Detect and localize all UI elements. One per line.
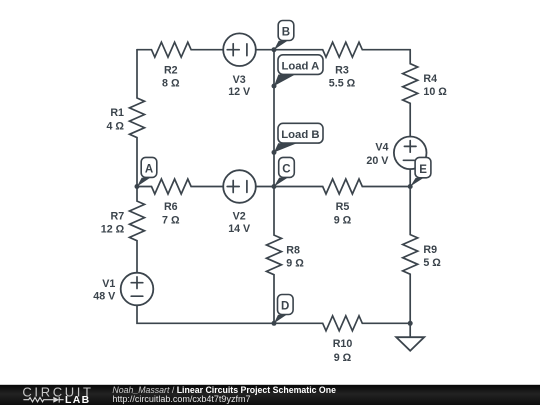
node dot A bbox=[135, 184, 140, 189]
wire V3 right lead to node B bbox=[256, 49, 274, 51]
wire V4 bottom lead to node E bbox=[409, 169, 411, 186]
voltage source V1 (48 V) bbox=[121, 273, 154, 306]
svg-text:V1: V1 bbox=[102, 278, 115, 290]
node dot Load A tap bbox=[272, 84, 277, 89]
svg-text:12 V: 12 V bbox=[228, 86, 251, 98]
svg-text:V3: V3 bbox=[233, 74, 246, 86]
svg-text:D: D bbox=[281, 301, 289, 313]
wedge pointer D bbox=[274, 315, 287, 324]
svg-text:R10: R10 bbox=[333, 338, 353, 350]
wedge pointer E bbox=[410, 178, 423, 187]
voltage source V3 (12 V) bbox=[223, 33, 256, 66]
svg-text:V2: V2 bbox=[233, 211, 246, 223]
node dot E bbox=[408, 184, 413, 189]
wire ground stem bbox=[409, 323, 411, 337]
wire V2 right lead to node C bbox=[256, 186, 274, 188]
wedge pointer B bbox=[274, 41, 288, 50]
svg-text:Load B: Load B bbox=[281, 129, 319, 141]
node dot B bbox=[272, 47, 277, 52]
node label box D bbox=[278, 295, 294, 315]
node dot ground junction bbox=[408, 321, 413, 326]
svg-text:A: A bbox=[145, 164, 153, 176]
node dot C bbox=[272, 184, 277, 189]
node label box A bbox=[141, 157, 157, 177]
CircuitLab logo resistor-diode glyph bbox=[23, 397, 63, 403]
svg-text:14 V: 14 V bbox=[228, 223, 251, 235]
svg-text:http://circuitlab.com/cxb4t7t9: http://circuitlab.com/cxb4t7t9yzfm7 bbox=[112, 394, 250, 404]
svg-text:R8: R8 bbox=[286, 245, 300, 257]
ground symbol bbox=[396, 337, 424, 351]
voltage source V4 (20 V) bbox=[394, 137, 427, 170]
svg-text:4 Ω: 4 Ω bbox=[107, 120, 125, 132]
wedge pointer Load B bbox=[274, 143, 297, 152]
svg-text:B: B bbox=[282, 27, 290, 39]
node label box C bbox=[279, 157, 295, 177]
resistor R8 bbox=[267, 187, 282, 324]
node label box B bbox=[278, 21, 294, 41]
svg-text:5.5 Ω: 5.5 Ω bbox=[329, 78, 356, 90]
resistor R9 bbox=[403, 187, 418, 324]
svg-text:R4: R4 bbox=[423, 73, 437, 85]
svg-text:LAB: LAB bbox=[65, 395, 90, 405]
wire V1 bottom to bottom-left corner to node D bbox=[137, 305, 274, 323]
svg-text:R6: R6 bbox=[164, 201, 178, 213]
svg-text:R9: R9 bbox=[423, 244, 437, 256]
node dot D bbox=[272, 321, 277, 326]
svg-text:7 Ω: 7 Ω bbox=[162, 214, 180, 226]
svg-text:10 Ω: 10 Ω bbox=[423, 86, 447, 98]
svg-text:R2: R2 bbox=[164, 64, 178, 76]
svg-text:8 Ω: 8 Ω bbox=[162, 78, 180, 90]
flag Load A box bbox=[278, 55, 323, 75]
resistor R10 bbox=[274, 316, 410, 331]
svg-text:20 V: 20 V bbox=[366, 155, 389, 167]
resistor R7 bbox=[130, 187, 145, 273]
resistor R4 bbox=[403, 50, 418, 137]
flag Load B box bbox=[278, 123, 323, 143]
svg-text:9 Ω: 9 Ω bbox=[334, 352, 352, 364]
svg-text:48 V: 48 V bbox=[93, 291, 116, 303]
wedge pointer A bbox=[137, 178, 150, 187]
svg-text:R3: R3 bbox=[335, 64, 349, 76]
svg-text:5 Ω: 5 Ω bbox=[423, 257, 441, 269]
svg-text:12 Ω: 12 Ω bbox=[101, 224, 125, 236]
svg-text:R5: R5 bbox=[336, 201, 350, 213]
wedge pointer Load A bbox=[274, 75, 295, 87]
resistor R6 bbox=[137, 179, 223, 194]
resistor R3 bbox=[274, 42, 410, 57]
svg-text:Load A: Load A bbox=[281, 61, 319, 73]
svg-text:9 Ω: 9 Ω bbox=[286, 258, 304, 270]
voltage source V2 (14 V) bbox=[223, 170, 256, 203]
svg-text:9 Ω: 9 Ω bbox=[334, 214, 352, 226]
svg-text:R7: R7 bbox=[111, 210, 125, 222]
svg-text:E: E bbox=[419, 164, 427, 176]
resistor R1 bbox=[130, 50, 145, 187]
resistor R2 bbox=[137, 42, 223, 57]
node dot Load B tap bbox=[272, 150, 277, 155]
wedge pointer C bbox=[274, 178, 288, 187]
node label box E bbox=[415, 157, 431, 177]
svg-text:R1: R1 bbox=[110, 107, 124, 119]
resistor R5 bbox=[274, 179, 410, 194]
svg-text:C: C bbox=[282, 164, 290, 176]
wire node B to node C (mid rail through Load taps) bbox=[273, 50, 275, 187]
svg-text:V4: V4 bbox=[375, 142, 388, 154]
